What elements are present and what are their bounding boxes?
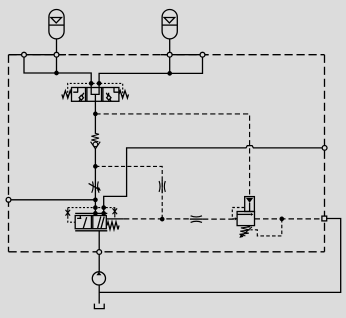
orifice O1 xyxy=(159,180,165,193)
port P7 xyxy=(97,250,102,255)
pilot dotted line above valve V2 xyxy=(68,207,115,209)
valve V2 top plate line xyxy=(75,212,107,214)
enclosure left edge xyxy=(8,55,10,252)
port P1 xyxy=(22,52,27,57)
node J1 xyxy=(55,71,58,74)
pilot line to relief valve (fine dash) xyxy=(95,114,249,197)
drain pilot line dashed to relief valve xyxy=(124,218,190,220)
valve V1 centre outlet stem xyxy=(94,94,96,101)
RV1 internal flow arrow xyxy=(237,213,251,215)
RV1 spring adjust arrow xyxy=(242,227,252,235)
pilot dotted: X1 top corner xyxy=(67,208,69,209)
enclosure right edge xyxy=(324,55,326,252)
port P2 xyxy=(54,52,59,57)
valve V1 right cell check poppet xyxy=(107,95,111,100)
accumulator A1 xyxy=(49,10,64,39)
port P8 (square) xyxy=(322,216,327,221)
drain line (solid, outside) xyxy=(99,219,341,293)
wire: pump to tank xyxy=(98,285,100,304)
check valve CV1 ball xyxy=(93,142,98,147)
pilot choke X2 xyxy=(113,207,118,215)
valve V1 body xyxy=(72,88,119,102)
wire: top manifold solid segment left xyxy=(9,54,67,56)
relief valve RV1 body xyxy=(237,212,254,226)
node J6 xyxy=(94,165,97,168)
valve V1 wall right xyxy=(101,88,103,102)
wire: P5 to main line xyxy=(11,199,96,201)
throttle TH1 arrow xyxy=(89,183,99,189)
wire: P4 to valve right feed xyxy=(99,57,202,87)
wire: V1 outlet down xyxy=(94,101,96,134)
node J9 xyxy=(94,206,97,209)
pilot dotted: X2 to drain line xyxy=(114,215,116,219)
valve V2 wall xyxy=(90,216,92,229)
enclosure bottom edge xyxy=(9,251,325,253)
enclosure top edge xyxy=(9,54,325,56)
port P6 xyxy=(322,146,327,151)
RV1 actuator stem xyxy=(249,203,251,212)
orifice O2 xyxy=(190,216,203,223)
wire: main line below CV1 xyxy=(94,149,96,216)
RV1 outlet dashed to port xyxy=(255,218,322,220)
pilot branch with orifice (fine dash) xyxy=(95,166,162,219)
wire: A1 stem xyxy=(56,39,58,73)
check valve CV1 seat xyxy=(91,142,101,149)
relief valve RV1 actuator xyxy=(245,197,255,212)
dashed line O2 to relief valve RV1 xyxy=(203,218,235,220)
wire: P1 to valve left feed xyxy=(24,57,91,87)
wire: V2 outlet to pump port xyxy=(98,231,100,272)
node J3 xyxy=(90,82,93,85)
valve V2 left cell diagonal xyxy=(83,217,86,228)
valve V1 right cell flow path xyxy=(106,93,111,101)
valve V1 left cell check poppet xyxy=(79,95,83,100)
RV1 drain loop dashed xyxy=(250,219,281,236)
RV1 actuator triangle xyxy=(246,198,253,203)
valve V1 right spring xyxy=(119,91,129,98)
pilot dotted: X1 to V2 left xyxy=(68,217,75,222)
valve V2 body xyxy=(75,216,106,229)
port P4 xyxy=(200,52,205,57)
wire: A2 stem xyxy=(169,39,171,74)
valve V1 left cell flow path xyxy=(79,93,84,101)
valve V1 centre cup xyxy=(91,88,99,95)
valve V2 left cell T-port xyxy=(77,216,81,219)
valve V1 left spring xyxy=(62,91,72,98)
node J7 xyxy=(161,217,164,220)
arrow on right feed xyxy=(102,205,106,208)
port P5 xyxy=(6,197,11,202)
wire: top manifold solid segment right xyxy=(161,54,209,56)
node J10 xyxy=(102,206,105,209)
drain pilot line solid stub from V2 xyxy=(106,218,124,220)
node J4 xyxy=(97,82,100,85)
node J5 xyxy=(94,112,97,115)
RV1 pilot loop (dashed) xyxy=(232,208,244,219)
node J2 xyxy=(168,72,171,75)
throttle TH1 arcs xyxy=(92,181,99,192)
valve V2 spring xyxy=(107,222,119,230)
RV1 pilot arrow xyxy=(235,217,238,220)
node J13 xyxy=(280,217,283,220)
RV1 spring xyxy=(240,226,251,236)
pump M1 xyxy=(92,272,105,285)
pilot box of valve V1 (dotted) xyxy=(68,83,123,96)
tank T1 xyxy=(94,304,104,309)
valve V1 wall left xyxy=(85,88,87,102)
node J8 xyxy=(94,198,97,201)
port P3 xyxy=(167,52,172,57)
pump M1 triangle xyxy=(96,272,101,275)
valve V2 right cell diagonals xyxy=(98,217,105,229)
check valve CV1 spring xyxy=(91,133,99,141)
node J12 xyxy=(102,212,105,215)
valve V2 bottom plate line xyxy=(75,230,107,232)
wire: P6 feed line with hop, to valve V2 right inlet xyxy=(104,146,323,216)
pilot choke X1 xyxy=(66,209,71,217)
node J11 xyxy=(94,212,97,215)
valve V1 left cell T-port xyxy=(73,88,78,93)
accumulator A2 xyxy=(162,10,177,39)
valve V1 right cell T-port xyxy=(114,88,119,93)
